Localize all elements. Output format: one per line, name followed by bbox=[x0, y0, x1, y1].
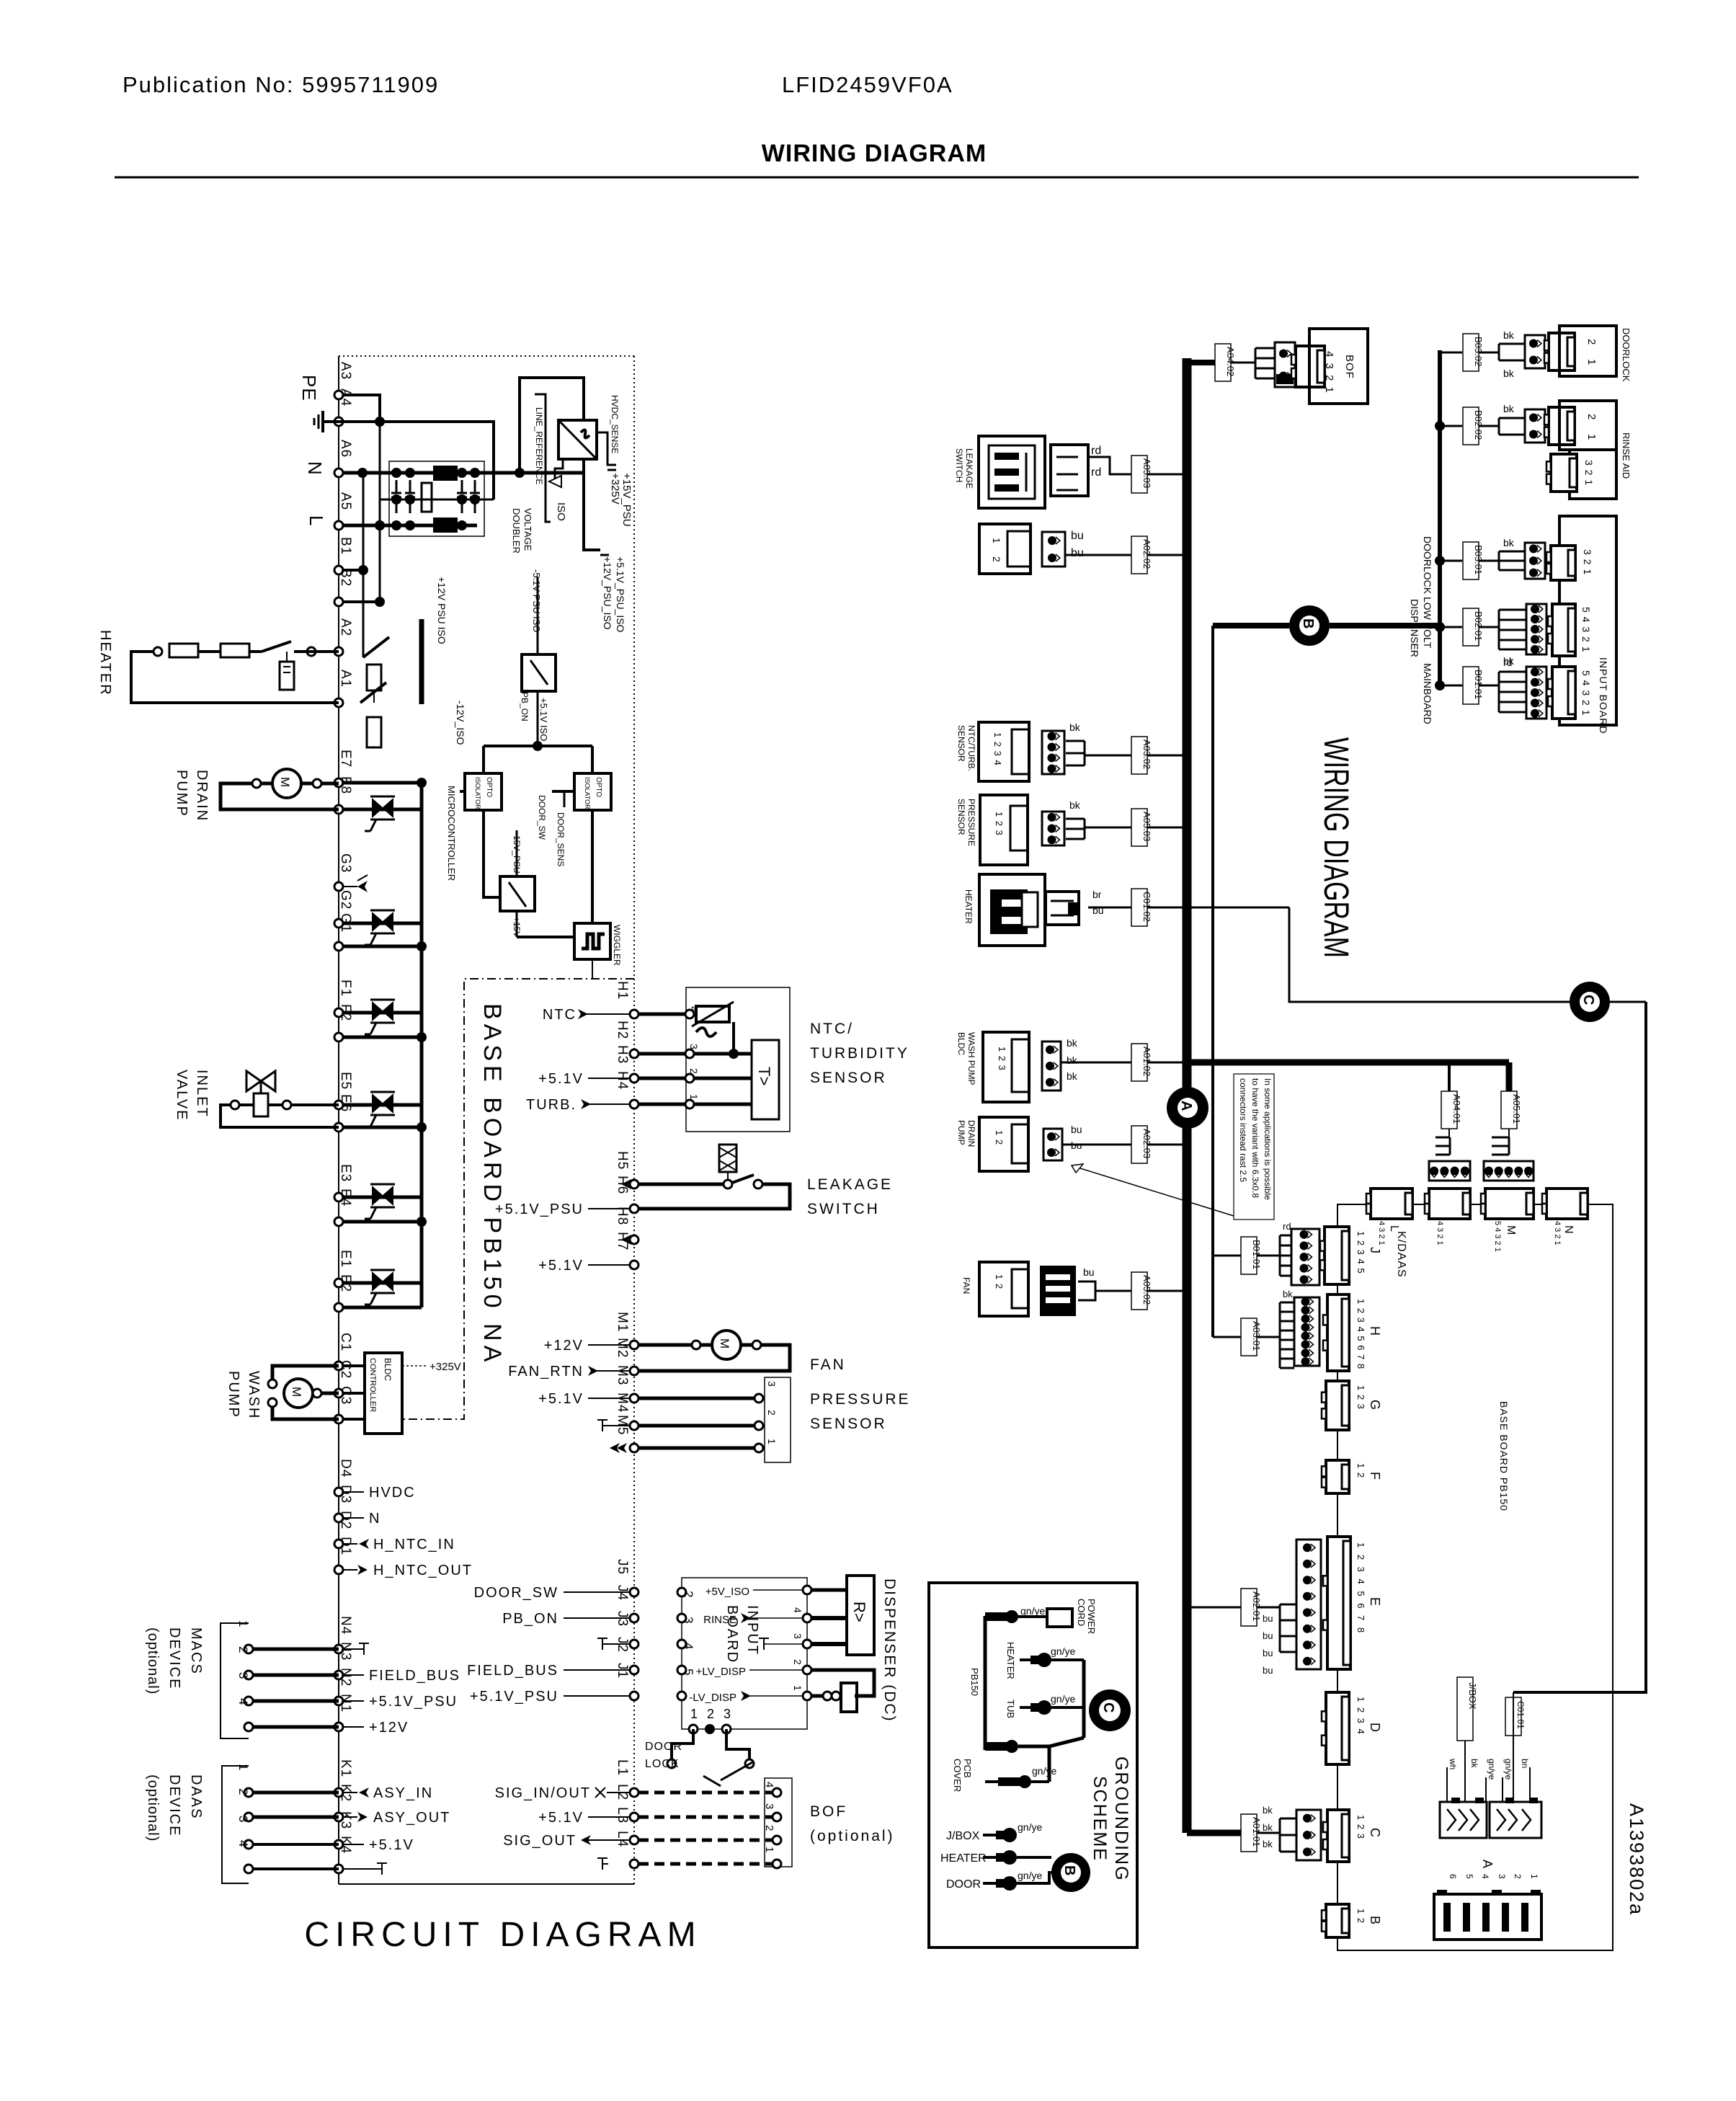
wire node B to mainboard bus bbox=[1330, 623, 1440, 628]
svg-text:MAINBOARD: MAINBOARD bbox=[1422, 663, 1433, 724]
svg-text:H3: H3 bbox=[615, 1045, 630, 1064]
converter +325V +15V bracket bbox=[597, 432, 616, 465]
svg-text:DOORLOCK: DOORLOCK bbox=[1621, 328, 1632, 382]
svg-text:+5.1V ISO: +5.1V ISO bbox=[538, 698, 549, 741]
svg-text:N3: N3 bbox=[338, 1642, 353, 1661]
ntc pin4 wire bbox=[638, 1013, 696, 1016]
svg-text:1: 1 bbox=[766, 1439, 778, 1444]
D connector bbox=[1326, 1692, 1349, 1764]
svg-text:1 2 3: 1 2 3 bbox=[994, 812, 1005, 836]
wire label C01.01 bbox=[1505, 1697, 1521, 1736]
drain pump wire bbox=[1062, 1144, 1183, 1146]
svg-text:LEAKAGE: LEAKAGE bbox=[964, 448, 974, 489]
ntc pin3 wire bbox=[638, 1052, 752, 1056]
heater interlock box bbox=[221, 644, 249, 657]
main terminal bus (left rail) bbox=[338, 356, 339, 1884]
comb A05.01 bbox=[1508, 1137, 1510, 1155]
svg-text:TUB: TUB bbox=[1005, 1700, 1016, 1718]
terminal F2 bbox=[334, 1033, 343, 1041]
comb A04.01 bbox=[1449, 1137, 1451, 1155]
H pin connector bbox=[1294, 1297, 1319, 1366]
svg-text:rd: rd bbox=[1091, 445, 1101, 457]
bof wire L1 dashed bbox=[638, 1791, 777, 1795]
input board RINSE pin bbox=[803, 1614, 811, 1622]
svg-text:+5.1V: +5.1V bbox=[369, 1837, 414, 1853]
svg-text:A1: A1 bbox=[338, 670, 353, 688]
svg-text:bk: bk bbox=[1067, 1070, 1078, 1082]
L connector bbox=[1371, 1189, 1412, 1219]
terminal G3 bbox=[334, 882, 343, 891]
ground symbol at PE bbox=[323, 420, 333, 423]
svg-text:2: 2 bbox=[1585, 414, 1598, 419]
wire L row A5 bbox=[343, 524, 477, 528]
bof wire L4 dashed bbox=[638, 1862, 777, 1866]
svg-text:3 2 1: 3 2 1 bbox=[1583, 460, 1595, 486]
svg-text:INLET: INLET bbox=[194, 1070, 210, 1118]
svg-text:L4: L4 bbox=[615, 1831, 630, 1847]
svg-text:-LV_DISP: -LV_DISP bbox=[689, 1692, 736, 1704]
terminal E8 bbox=[334, 805, 343, 814]
inlet valve wires bbox=[268, 1103, 339, 1106]
terminal E6 bbox=[334, 1123, 343, 1132]
svg-text:OPTO: OPTO bbox=[485, 777, 493, 797]
svg-text:+5.1V_PSU: +5.1V_PSU bbox=[470, 1689, 558, 1705]
trunk heavy branch right bbox=[1191, 1060, 1509, 1066]
pressure wire bbox=[1085, 827, 1183, 829]
svg-text:HEATER: HEATER bbox=[1005, 1642, 1016, 1679]
filter capacitor c4 bbox=[474, 480, 476, 493]
svg-text:bk: bk bbox=[1067, 1037, 1078, 1049]
svg-text:gn/ye: gn/ye bbox=[1051, 1693, 1075, 1705]
circuit diagram outer dashed border top bbox=[339, 355, 634, 357]
daas pin 1 wire bbox=[249, 1791, 339, 1795]
terminal C3 bbox=[334, 1415, 343, 1423]
heater pigtail (pb150) bbox=[1020, 1658, 1031, 1661]
svg-text:J1: J1 bbox=[615, 1663, 630, 1679]
ntc/turb connector bbox=[1042, 731, 1064, 774]
svg-text:2: 2 bbox=[1585, 339, 1598, 345]
svg-text:DOORLOCK: DOORLOCK bbox=[1422, 536, 1433, 595]
svg-text:3: 3 bbox=[763, 1803, 775, 1809]
iso arrow bbox=[549, 476, 561, 487]
j/box connector right bbox=[1490, 1802, 1541, 1838]
svg-text:1 2 3: 1 2 3 bbox=[997, 1047, 1007, 1071]
svg-text:E7: E7 bbox=[338, 750, 353, 768]
svg-text:1: 1 bbox=[1585, 359, 1598, 365]
wire label B01.01 (k/daas) bbox=[1213, 1255, 1241, 1257]
svg-text:PUMP: PUMP bbox=[174, 770, 190, 817]
svg-text:bk: bk bbox=[1069, 799, 1081, 811]
svg-text:E8: E8 bbox=[338, 776, 353, 794]
svg-text:(optional): (optional) bbox=[145, 1774, 161, 1842]
svg-text:PB_ON: PB_ON bbox=[520, 692, 530, 721]
svg-text:B1: B1 bbox=[338, 537, 353, 555]
svg-text:G3: G3 bbox=[338, 853, 353, 873]
svg-text:3 2 1: 3 2 1 bbox=[1582, 549, 1593, 575]
svg-text:ISOLATOR: ISOLATOR bbox=[474, 777, 481, 809]
svg-text:RINSE: RINSE bbox=[703, 1614, 736, 1626]
svg-text:4: 4 bbox=[236, 1698, 250, 1705]
terminal N3 bbox=[334, 1671, 343, 1679]
svg-text:4 3 2 1: 4 3 2 1 bbox=[1377, 1221, 1386, 1245]
svg-text:1 2 3 4 5 6 7 8: 1 2 3 4 5 6 7 8 bbox=[1356, 1299, 1366, 1369]
wire F2 return bbox=[343, 1036, 422, 1039]
second top connector bbox=[1429, 1189, 1470, 1219]
svg-text:C2: C2 bbox=[338, 1360, 353, 1379]
node C bbox=[1570, 982, 1610, 1022]
svg-text:bk: bk bbox=[1069, 721, 1081, 733]
svg-text:1: 1 bbox=[1585, 434, 1598, 440]
svg-text:bu: bu bbox=[1263, 1648, 1273, 1658]
svg-text:3: 3 bbox=[1497, 1874, 1507, 1879]
psu iso output rail bbox=[584, 459, 600, 550]
svg-text:A05.01: A05.01 bbox=[1511, 1094, 1522, 1124]
svg-text:SENSOR: SENSOR bbox=[956, 799, 966, 835]
terminal F1 bbox=[334, 1008, 343, 1017]
svg-text:BASE BOARD PB150: BASE BOARD PB150 bbox=[1498, 1401, 1510, 1511]
svg-text:N1: N1 bbox=[338, 1694, 353, 1713]
svg-text:1 2: 1 2 bbox=[1356, 1909, 1366, 1924]
svg-text:4: 4 bbox=[792, 1607, 804, 1613]
svg-text:F1: F1 bbox=[338, 980, 353, 997]
svg-text:1 2: 1 2 bbox=[994, 1130, 1005, 1145]
svg-text:K3: K3 bbox=[338, 1811, 353, 1829]
relay K2 coil bbox=[367, 717, 381, 747]
svg-text:LEAKAGE: LEAKAGE bbox=[807, 1176, 893, 1193]
heater terminal left bbox=[153, 647, 162, 656]
wash pump connector bbox=[1042, 1041, 1061, 1091]
bof pin connector bbox=[1275, 342, 1295, 387]
svg-text:bu: bu bbox=[1263, 1665, 1273, 1676]
wire label B03.02 bbox=[1463, 334, 1479, 371]
rail bottom link bbox=[1049, 1738, 1084, 1746]
svg-text:1: 1 bbox=[236, 1620, 250, 1627]
svg-text:J2: J2 bbox=[615, 1637, 630, 1653]
wire RINSE to dispenser bbox=[811, 1616, 847, 1620]
dispenser box R> bbox=[847, 1576, 874, 1655]
svg-text:FAN: FAN bbox=[810, 1356, 846, 1373]
svg-text:H1: H1 bbox=[615, 981, 630, 1000]
svg-text:FAN_RTN: FAN_RTN bbox=[508, 1364, 584, 1380]
svg-text:gn/ye: gn/ye bbox=[1018, 1870, 1042, 1881]
doorlock bk wires bbox=[1479, 352, 1499, 354]
terminal H7 bbox=[630, 1261, 638, 1269]
svg-text:N2: N2 bbox=[338, 1668, 353, 1687]
svg-text:LFID2459VF0A: LFID2459VF0A bbox=[782, 72, 953, 97]
svg-text:SCHEME: SCHEME bbox=[1090, 1776, 1110, 1862]
bus end mainboard bbox=[1435, 680, 1445, 690]
filter resistor bbox=[422, 483, 432, 512]
svg-text:bu: bu bbox=[1092, 905, 1104, 916]
trunk branch to BOF bbox=[1187, 360, 1216, 365]
svg-text:4 3 2 1: 4 3 2 1 bbox=[1435, 1221, 1444, 1245]
svg-text:M4: M4 bbox=[615, 1392, 630, 1413]
svg-text:FIELD_BUS: FIELD_BUS bbox=[369, 1668, 460, 1684]
wire gnd to dispenser bbox=[811, 1642, 847, 1646]
node B bbox=[1213, 623, 1289, 628]
svg-text:2: 2 bbox=[766, 1410, 778, 1416]
svg-text:A2: A2 bbox=[338, 618, 353, 636]
h8 arrow bbox=[621, 1235, 631, 1245]
wire B1 stub bbox=[343, 569, 363, 572]
wire door to node B bbox=[1017, 1873, 1051, 1883]
svg-text:1: 1 bbox=[991, 538, 1002, 543]
svg-text:HEATER: HEATER bbox=[963, 889, 974, 924]
terminal H6 bbox=[630, 1204, 638, 1213]
wire label A02.01 (E) bbox=[1187, 1607, 1241, 1609]
svg-text:A3: A3 bbox=[338, 362, 353, 380]
door lock switch bbox=[672, 1729, 693, 1759]
svg-text:WIGGLER: WIGGLER bbox=[612, 925, 622, 966]
svg-text:NTC/TURB.: NTC/TURB. bbox=[966, 725, 976, 771]
svg-text:D: D bbox=[1368, 1723, 1382, 1732]
terminal H5 bbox=[630, 1180, 638, 1189]
svg-text:+5.1V_PSU: +5.1V_PSU bbox=[369, 1694, 458, 1710]
J connector pins bbox=[1291, 1229, 1319, 1285]
note box bbox=[1234, 1074, 1274, 1220]
svg-text:gn/ye: gn/ye bbox=[1020, 1605, 1045, 1617]
rinse aid bk wire bbox=[1479, 425, 1499, 427]
power cord pigtail bbox=[985, 1612, 1010, 1621]
svg-text:B: B bbox=[1300, 618, 1316, 628]
mainboard rd comb bbox=[1479, 685, 1499, 687]
svg-text:DOOR: DOOR bbox=[946, 1878, 981, 1891]
svg-text:1: 1 bbox=[688, 1094, 700, 1100]
relay K1 coil bbox=[367, 665, 381, 690]
svg-text:bu: bu bbox=[1071, 547, 1084, 559]
header rule bbox=[115, 177, 1639, 179]
svg-text:H: H bbox=[1368, 1326, 1382, 1336]
svg-text:2: 2 bbox=[991, 556, 1002, 562]
svg-text:ISO: ISO bbox=[555, 502, 567, 521]
h5 arrow bbox=[621, 1179, 631, 1189]
bldc controller U5 bbox=[365, 1353, 402, 1434]
thermal switch blade bbox=[198, 650, 221, 653]
svg-text:PUMP: PUMP bbox=[226, 1371, 241, 1418]
triac T4 row E5 bbox=[343, 1103, 422, 1107]
terminal A1 bbox=[334, 698, 343, 707]
svg-text:1 2 3 4 5 6 7 8: 1 2 3 4 5 6 7 8 bbox=[1356, 1542, 1366, 1635]
terminal J1 bbox=[630, 1692, 638, 1700]
inlet valve connector bbox=[1042, 532, 1065, 567]
net ASY_OUT bbox=[343, 1816, 357, 1818]
svg-text:CIRCUIT DIAGRAM: CIRCUIT DIAGRAM bbox=[304, 1916, 701, 1954]
svg-text:4: 4 bbox=[236, 1840, 250, 1847]
terminal E7 bbox=[334, 778, 343, 787]
terminal A3 bbox=[334, 391, 343, 399]
converter iso output hook bbox=[555, 459, 563, 481]
wire -LV_DISP to resistor bbox=[811, 1694, 841, 1698]
pcb cover pigtail bbox=[998, 1777, 1023, 1786]
wash pump motor M2 bbox=[284, 1379, 313, 1408]
svg-text:2: 2 bbox=[236, 1788, 250, 1795]
ntc comb bbox=[1084, 741, 1086, 765]
ntc thermistor R2 bbox=[696, 1006, 729, 1022]
F connector bbox=[1326, 1460, 1349, 1493]
wire label A05.03 (leakage) bbox=[1131, 456, 1147, 493]
svg-text:2: 2 bbox=[236, 1646, 250, 1653]
triac output rail bbox=[420, 783, 424, 1307]
svg-text:H4: H4 bbox=[615, 1071, 630, 1090]
net HVDC bbox=[343, 1491, 364, 1493]
svg-text:1 2 3: 1 2 3 bbox=[1356, 1815, 1366, 1839]
wire to opto isolator U3 bbox=[591, 746, 594, 773]
svg-text:RINSE AID: RINSE AID bbox=[1621, 432, 1632, 479]
wire C1 to bldc bbox=[343, 1364, 365, 1367]
input 3pin connector bbox=[1525, 543, 1545, 579]
ntc wire bbox=[1085, 755, 1183, 757]
leakage switch icon bbox=[979, 436, 1045, 508]
svg-text:J4: J4 bbox=[615, 1585, 630, 1601]
svg-text:LOCK: LOCK bbox=[645, 1758, 680, 1770]
fan wires bbox=[638, 1343, 712, 1347]
terminal G1 bbox=[334, 942, 343, 951]
svg-text:WIRING DIAGRAM: WIRING DIAGRAM bbox=[1317, 737, 1355, 958]
vertical wire N to relay rail bbox=[362, 473, 365, 652]
wire switch to opto rail bbox=[537, 691, 539, 746]
terminal J3 bbox=[630, 1640, 638, 1648]
input board gnd pin bbox=[803, 1640, 811, 1648]
fuse F1 bbox=[169, 644, 198, 657]
terminal K1 bbox=[334, 1788, 343, 1797]
svg-text:4: 4 bbox=[1480, 1874, 1490, 1879]
door switch box bbox=[500, 876, 535, 911]
svg-text:T>: T> bbox=[755, 1067, 773, 1085]
net +5.1V_PSU at N2 bbox=[343, 1700, 364, 1702]
power cord box bbox=[1047, 1609, 1072, 1627]
j/box wires down bbox=[1464, 1741, 1466, 1802]
svg-text:PUMP: PUMP bbox=[956, 1120, 966, 1145]
svg-text:G: G bbox=[1368, 1400, 1382, 1410]
svg-text:bk: bk bbox=[1263, 1839, 1273, 1849]
terminal M2 bbox=[630, 1367, 638, 1375]
wire A4 earth rail bbox=[330, 420, 380, 423]
wire B2 stub bbox=[343, 600, 380, 603]
input board left pin 3 bbox=[677, 1640, 686, 1648]
terminal J2 bbox=[630, 1666, 638, 1674]
terminal G2 bbox=[334, 919, 343, 928]
svg-text:1: 1 bbox=[792, 1685, 804, 1691]
base board pb150 box bbox=[1337, 1204, 1613, 1950]
svg-text:M2: M2 bbox=[615, 1338, 630, 1358]
wire heater to node B bbox=[1017, 1856, 1051, 1859]
svg-text:N: N bbox=[369, 1511, 380, 1527]
heater pigtail (bottom) bbox=[983, 1856, 996, 1859]
svg-text:D4: D4 bbox=[338, 1459, 353, 1478]
pb150 bottom pigtail bbox=[985, 1742, 1010, 1751]
svg-text:N: N bbox=[304, 461, 326, 476]
connector A05.01 bbox=[1484, 1161, 1534, 1181]
ntc turbidity sensor outline bbox=[686, 987, 790, 1132]
svg-text:J5: J5 bbox=[615, 1559, 630, 1575]
svg-text:SIG_IN/OUT: SIG_IN/OUT bbox=[495, 1785, 591, 1801]
svg-text:J/BOX: J/BOX bbox=[946, 1830, 980, 1842]
wire label A01.02 bbox=[1131, 1044, 1147, 1081]
terminal A4 bbox=[334, 417, 343, 426]
macs pin 2 wire bbox=[249, 1674, 339, 1677]
terminal K3 bbox=[334, 1840, 343, 1849]
dispenser sense resistor R3 bbox=[841, 1683, 857, 1712]
inlet valve coil bbox=[254, 1093, 268, 1116]
wash pump bldc icon bbox=[983, 1032, 1029, 1102]
terminal L3 bbox=[630, 1836, 638, 1844]
terminal E4 bbox=[334, 1217, 343, 1226]
M connector bbox=[1485, 1189, 1534, 1219]
svg-text:to have the variant with 6.3x0: to have the variant with 6.3x0.8 bbox=[1250, 1078, 1260, 1198]
gnd at M4 bbox=[602, 1425, 630, 1426]
svg-text:A5: A5 bbox=[338, 492, 353, 510]
svg-text:4: 4 bbox=[688, 1006, 700, 1012]
svg-text:INPUT BOARD: INPUT BOARD bbox=[1598, 657, 1609, 734]
input 3pin bk wire bbox=[1479, 560, 1499, 562]
terminal M5 bbox=[630, 1444, 638, 1452]
svg-text:GROUNDING: GROUNDING bbox=[1111, 1756, 1131, 1882]
ntc pin1 wire bbox=[638, 1103, 752, 1106]
wire label A05.03 (pressure) bbox=[1131, 809, 1147, 846]
wire label C01.02 bbox=[1131, 889, 1147, 926]
svg-text:C: C bbox=[1100, 1702, 1116, 1713]
bof wire L2 dashed bbox=[638, 1816, 777, 1819]
H comb bk bbox=[1257, 1336, 1280, 1338]
-15V wire through door switch bbox=[516, 830, 518, 876]
G connector bbox=[1326, 1381, 1349, 1430]
macs pin 3 wire bbox=[249, 1700, 339, 1703]
svg-text:+325V: +325V bbox=[609, 473, 621, 505]
wire label A04.01 bbox=[1441, 1091, 1457, 1129]
svg-text:bu: bu bbox=[1083, 1266, 1095, 1278]
svg-text:1 2: 1 2 bbox=[1356, 1463, 1366, 1478]
svg-text:ASY_OUT: ASY_OUT bbox=[373, 1810, 450, 1826]
svg-text:H_NTC_IN: H_NTC_IN bbox=[373, 1537, 455, 1553]
svg-text:2: 2 bbox=[1513, 1874, 1523, 1879]
bof wire L3 dashed bbox=[638, 1839, 777, 1842]
svg-text:3: 3 bbox=[682, 1617, 695, 1623]
B connector bbox=[1326, 1904, 1349, 1937]
net FIELD_BUS at N3 bbox=[343, 1674, 364, 1676]
svg-text:bk: bk bbox=[1469, 1759, 1479, 1769]
terminal L1 bbox=[630, 1788, 638, 1797]
wire label A05.01 bbox=[1501, 1091, 1517, 1129]
filter mid rail bbox=[380, 499, 494, 501]
svg-text:LINE_REFERENCE: LINE_REFERENCE bbox=[534, 407, 544, 484]
svg-text:SENSOR: SENSOR bbox=[810, 1070, 887, 1086]
svg-text:DOUBLER: DOUBLER bbox=[511, 508, 522, 554]
svg-text:+5V_ISO: +5V_ISO bbox=[705, 1586, 749, 1598]
svg-text:bk: bk bbox=[1263, 1805, 1273, 1816]
svg-text:connectors instead rast 2.5: connectors instead rast 2.5 bbox=[1238, 1078, 1248, 1182]
heater connector bbox=[1046, 892, 1079, 925]
wire A3 PE to A4 junction bbox=[343, 395, 380, 422]
terminal M1 bbox=[630, 1341, 638, 1349]
wire label A02.03 bbox=[1131, 1126, 1147, 1163]
svg-text:A6: A6 bbox=[338, 440, 353, 458]
svg-text:DISPENSER: DISPENSER bbox=[1409, 599, 1420, 657]
C pin connector bbox=[1296, 1810, 1321, 1860]
filter inductor bottom bbox=[433, 518, 458, 533]
svg-text:C3: C3 bbox=[338, 1386, 353, 1405]
wire label B01.01 bbox=[1463, 667, 1479, 704]
svg-text:bk: bk bbox=[1067, 1054, 1078, 1066]
svg-text:gn/ye: gn/ye bbox=[1032, 1765, 1056, 1777]
svg-text:G2: G2 bbox=[338, 890, 353, 910]
heater loop wire bbox=[131, 652, 339, 703]
svg-text:+15V_PSU: +15V_PSU bbox=[620, 473, 633, 527]
svg-text:3: 3 bbox=[792, 1633, 804, 1639]
wire label A02.02 bbox=[1131, 536, 1147, 574]
svg-text:1 2 3: 1 2 3 bbox=[1356, 1385, 1366, 1410]
svg-text:DOOR_SENS: DOOR_SENS bbox=[556, 812, 566, 866]
svg-text:SIG_OUT: SIG_OUT bbox=[503, 1833, 577, 1849]
